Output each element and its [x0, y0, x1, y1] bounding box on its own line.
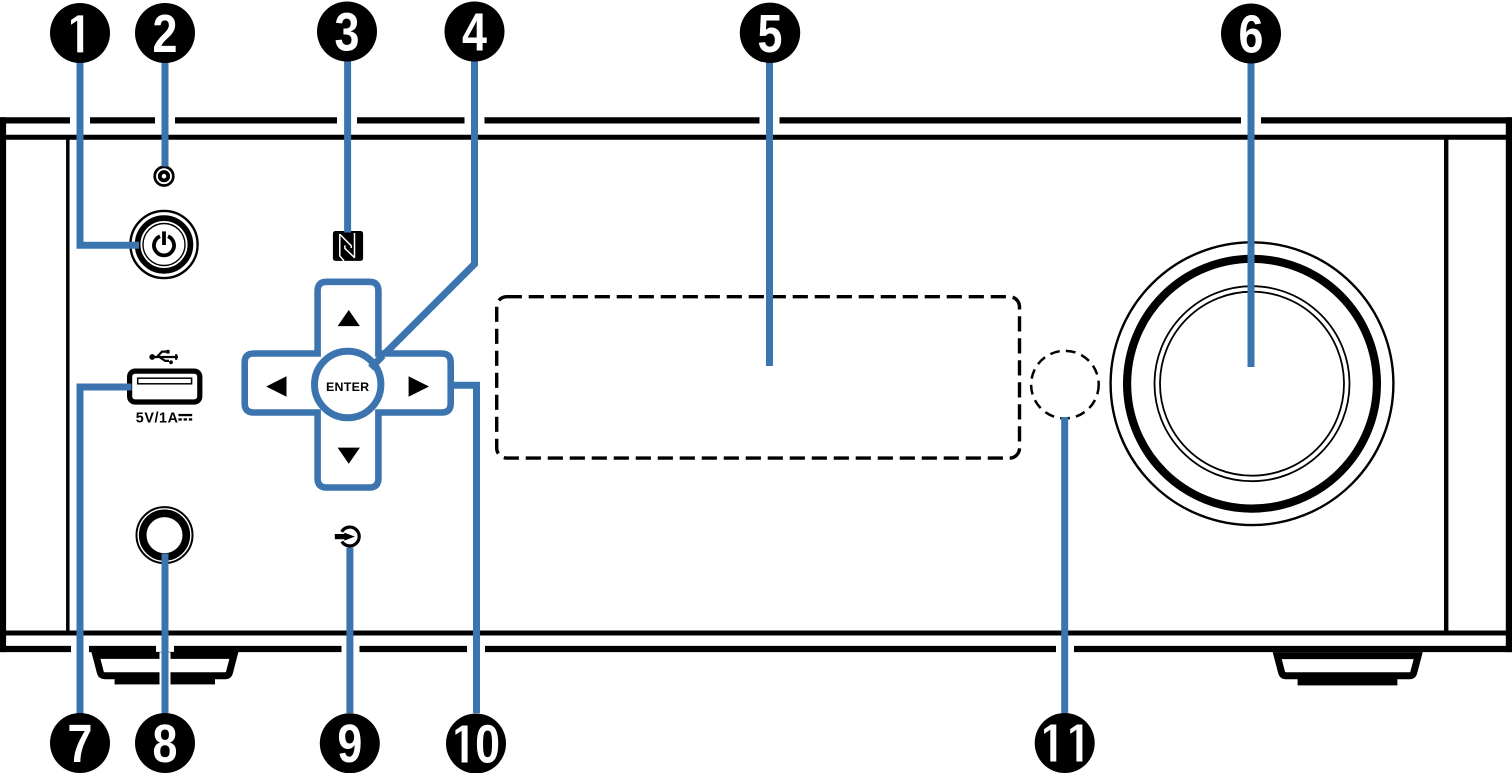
- svg-text:2: 2: [153, 3, 178, 64]
- svg-text:5V/1A: 5V/1A: [136, 410, 179, 426]
- svg-text:4: 4: [462, 2, 487, 63]
- svg-text:7: 7: [68, 713, 93, 773]
- svg-text:ENTER: ENTER: [326, 380, 370, 394]
- svg-text:3: 3: [335, 2, 360, 63]
- svg-text:9: 9: [337, 713, 362, 773]
- svg-text:8: 8: [153, 713, 178, 773]
- svg-text:6: 6: [1239, 4, 1264, 65]
- svg-text:5: 5: [758, 3, 783, 64]
- svg-text:0: 0: [475, 714, 500, 773]
